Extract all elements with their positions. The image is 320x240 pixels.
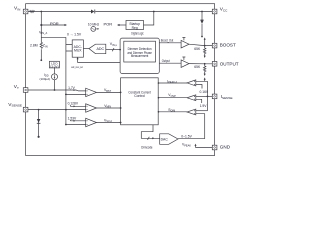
wire comp3 output [97, 122, 121, 124]
svg-text:VSU,d: VSU,d [104, 118, 112, 123]
wire comp1 minus from bus [66, 93, 86, 95]
comparator comp A triangle (points left) [187, 80, 196, 86]
junction dot comp1 out at CC [120, 92, 122, 94]
block ADC pentagon [89, 44, 106, 54]
bus slash on ADC output [112, 48, 114, 51]
pin VT [23, 88, 28, 93]
junction dot CC right wire 2 [158, 97, 160, 99]
supply tick boost driver [182, 38, 185, 41]
wire startup reg tap to VIN rail [144, 12, 154, 26]
diode on VSENSE riser [37, 119, 41, 123]
svg-text:Digital Logic: Digital Logic [131, 32, 144, 36]
svg-text:Reg: Reg [132, 26, 138, 30]
svg-text:10 MHz: 10 MHz [88, 23, 100, 27]
svg-text:Measurement: Measurement [131, 54, 149, 58]
svg-text:65K: 65K [194, 47, 201, 51]
arrowhead current source down [54, 75, 56, 78]
resistor 65k R2 [204, 64, 206, 74]
arrowhead adc_mux_sel up [77, 57, 79, 59]
wire comp1 output [97, 91, 121, 93]
svg-text:VOVP: VOVP [168, 93, 176, 98]
zener diode symbol [200, 19, 203, 22]
svg-text:IPEAK,d: IPEAK,d [167, 79, 177, 84]
pin VSENSE [23, 107, 28, 112]
current source IDD circle [52, 74, 58, 80]
arrowhead 1.7V ref into comp1 [74, 89, 76, 91]
arrowhead 1.53V ref into comp3 [74, 120, 76, 122]
arrowhead 0.128V ref into comp2 [74, 105, 76, 107]
svg-text:POR: POR [50, 21, 59, 26]
wire Boost_Out [159, 42, 181, 44]
block Constant Current Control [121, 78, 159, 125]
pin GND [212, 145, 217, 150]
wire internal gnd rail [196, 146, 213, 148]
pin ISENSE [212, 94, 217, 99]
oscillator 10MHz circle [91, 27, 96, 32]
svg-text:ISENSE: ISENSE [221, 94, 233, 100]
wire ADC-MUX to ADC [83, 48, 89, 50]
svg-text:2.8M: 2.8M [30, 43, 38, 47]
svg-text:VIN: VIN [14, 6, 20, 12]
junction dot startup tap [153, 11, 155, 13]
svg-text:DAC: DAC [161, 137, 169, 141]
wire comp A minus with 0.16V stub [196, 85, 202, 89]
wire comp3 minus from bus [66, 124, 86, 126]
svg-text:0.128V: 0.128V [68, 102, 79, 106]
block LDO [49, 61, 59, 68]
wire analog bus vertical x=65.8 [65, 37, 67, 124]
wire isense pin to rail [208, 95, 213, 97]
arrowhead gnd rail up [195, 144, 197, 146]
svg-text:0 → 1.5V: 0 → 1.5V [67, 32, 82, 36]
arrowhead 65k R2 down [204, 74, 206, 76]
junction dot zener tap [201, 11, 203, 13]
svg-text:0~1.5V: 0~1.5V [181, 134, 192, 138]
wire 1.7V tick [69, 88, 71, 91]
chip boundary [26, 4, 215, 156]
svg-text:Control: Control [134, 94, 145, 98]
junction dot current source [54, 89, 56, 91]
wire comp A output [158, 82, 187, 84]
wire output driver to OUTPUT pin [189, 63, 212, 65]
svg-text:VMIN: VMIN [104, 104, 111, 109]
oscillator sine mark [92, 28, 95, 30]
resistor ZIN zigzag [40, 42, 42, 48]
wire LDO feed to current source [54, 68, 56, 90]
junction dot VSENSE riser end [38, 136, 40, 138]
comparator comp2 triangle [86, 104, 97, 112]
arrowhead isense rail up with stem [204, 80, 206, 82]
wire POR flag line [41, 24, 65, 26]
svg-text:(100µA): (100µA) [40, 77, 51, 81]
comparator comp C triangle (points left) [187, 109, 196, 115]
pin VIN [23, 9, 28, 14]
block Startup Reg [126, 21, 144, 30]
junction dot ADC out at DL [119, 49, 121, 51]
svg-text:adc_mux_sel: adc_mux_sel [71, 65, 83, 69]
wire comp B top input [196, 96, 208, 98]
svg-text:VSENSE: VSENSE [8, 102, 22, 108]
junction dot CC right wire 3 [158, 111, 160, 113]
wire DAC input Z path from constant current control [141, 125, 159, 139]
svg-text:1.7V: 1.7V [68, 86, 76, 90]
svg-text:VPEAK: VPEAK [182, 143, 191, 148]
arrowhead POR flag right [65, 24, 68, 26]
wire VSENSE riser down [38, 110, 40, 137]
wire VSENSE from pin [28, 109, 86, 111]
resistor squiggle on VIN rail [30, 10, 35, 12]
svg-text:ZIN: ZIN [43, 44, 48, 49]
svg-text:VIN,s: VIN,s [110, 42, 118, 47]
junction dot zener bottom [201, 36, 203, 38]
svg-text:Output: Output [162, 59, 170, 63]
pin VCC [212, 9, 217, 14]
svg-text:Boost_Out: Boost_Out [161, 38, 174, 42]
comparator comp3 triangle [86, 118, 97, 126]
pin OUTPUT [212, 62, 217, 67]
junction dot VIN-divider [40, 11, 42, 13]
svg-text:(3.0V): (3.0V) [50, 64, 58, 68]
svg-text:1.9V: 1.9V [200, 104, 208, 108]
svg-text:65K: 65K [194, 65, 201, 69]
svg-text:VIN_A: VIN_A [39, 30, 47, 35]
svg-text:MUX: MUX [74, 49, 82, 53]
svg-text:GND: GND [220, 145, 231, 150]
svg-text:1.53V: 1.53V [68, 117, 77, 121]
svg-text:VCC: VCC [220, 6, 228, 12]
wire VIN rail y=11.5 [28, 11, 212, 13]
wire comp C output [158, 111, 187, 113]
bus slash on DAC input [148, 137, 150, 140]
svg-text:SDIM: SDIM [168, 108, 175, 113]
wire adc_mux_sel [78, 59, 121, 63]
wire Output [159, 62, 181, 64]
arrowhead boost stub up [204, 37, 206, 39]
junction dot bus comp2 [65, 109, 67, 111]
junction dot bus comp1 [65, 94, 67, 96]
wire vertical VIN divider x=41.3 [40, 12, 42, 61]
junction dot POR tick [40, 24, 42, 26]
wire comp2 output [97, 107, 121, 109]
junction dot boost 65k [204, 45, 206, 47]
arrowhead 65k R1 down [204, 56, 206, 58]
arrowhead dac input right [152, 137, 154, 139]
block ADC-MUX [72, 40, 83, 57]
wire comp3 plus with 1.53V tick [70, 119, 85, 122]
comparator comp1 triangle [86, 88, 97, 96]
svg-text:Dimcode: Dimcode [141, 145, 152, 149]
block Dimmer Detection [124, 41, 156, 62]
wire comp C bottom to VPEAK riser [196, 114, 205, 139]
arrowhead POR startup left [117, 24, 120, 26]
junction dot VSENSE riser [38, 109, 40, 111]
wire startup reg POR out [118, 24, 126, 26]
buffer driver BOOST triangle [181, 40, 189, 48]
junction dot ZIN bottom [40, 59, 42, 61]
junction dot output 65k [204, 63, 206, 65]
wire bus to ADC-MUX inputs [66, 45, 72, 51]
wire comp B minus with 1.9V stub [196, 99, 202, 103]
block Digital Logic container [120, 38, 159, 73]
wire VPEAK from DAC [178, 138, 205, 140]
junction dot CC right wire 1 [158, 82, 160, 84]
diode D1 on VIN rail [91, 10, 94, 14]
svg-text:BOOST: BOOST [220, 43, 236, 48]
wire VIN_A horizontal [41, 36, 66, 38]
svg-text:POR: POR [104, 21, 113, 26]
junction dot isense rail [207, 96, 209, 98]
pin BOOST [212, 43, 217, 48]
buffer driver OUTPUT triangle [181, 60, 189, 68]
svg-text:VBST: VBST [104, 88, 112, 93]
wire ADC output to digital logic [106, 49, 120, 51]
junction dot comp3 out at CC [120, 122, 122, 124]
block DAC pentagon [160, 134, 178, 145]
svg-text:VT: VT [14, 84, 19, 90]
supply tick output driver [182, 57, 185, 60]
wire comp2 plus with 0.128V tick [70, 105, 85, 106]
svg-text:ADC: ADC [97, 47, 105, 51]
svg-text:OUTPUT: OUTPUT [220, 62, 239, 67]
arrowhead oscillator [96, 28, 98, 30]
comparator input marks [87, 81, 196, 125]
wire boost driver to BOOST pin [189, 44, 212, 45]
wire comp A plus input / isense rail [196, 81, 208, 110]
wire VT from pin [28, 89, 86, 92]
resistor 65k R1 [204, 46, 206, 56]
wire comp C top input [196, 110, 208, 112]
wire comp B output [158, 97, 187, 99]
wire 65k chain pullup stub [204, 39, 206, 46]
svg-text:0.16V: 0.16V [200, 90, 209, 94]
wire zener branch x=202 [201, 12, 203, 37]
junction dot comp2 out at CC [120, 107, 122, 109]
comparator comp B triangle (points left) [187, 95, 196, 101]
junction dot bus comp3 [65, 124, 67, 126]
